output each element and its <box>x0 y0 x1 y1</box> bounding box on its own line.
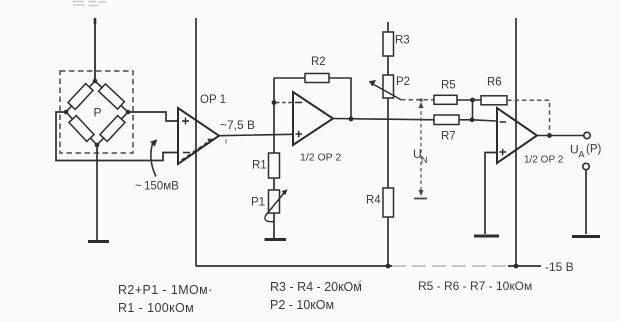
svg-text:R5: R5 <box>441 80 456 92</box>
resistor R4 <box>383 188 394 217</box>
OP1 plus input mark <box>182 118 189 125</box>
svg-text:R3 - R4 - 20кОм: R3 - R4 - 20кОм <box>270 280 362 294</box>
wire: summing tie vertical <box>472 100 474 120</box>
wire: R3 to P2 <box>387 56 389 75</box>
svg-text:~ 150мВ: ~ 150мВ <box>135 181 179 193</box>
wire: dashed lead into OP2 inverting input <box>276 102 292 104</box>
op-amp U3 (1/2 OP 2) <box>497 108 537 163</box>
UN voltage dashed arrow <box>420 105 422 192</box>
wire: OP3 output <box>537 135 584 137</box>
wire: OP3 non-inverting input to ground <box>485 153 497 235</box>
wire: bridge excitation supply (top left vertical) <box>94 18 96 80</box>
wire: negative supply rail <box>196 265 392 267</box>
offset adjust curved arrow <box>151 142 156 177</box>
svg-text:R5 - R6 - R7 - 10кОм: R5 - R6 - R7 - 10кОм <box>418 279 532 293</box>
P1 wiper tie hook <box>265 214 274 222</box>
node: rail R4 junction <box>386 264 391 269</box>
wire: top feed to R3 <box>387 22 389 32</box>
bridge resistor arm bottom-left <box>69 116 94 142</box>
svg-text:R6: R6 <box>487 77 502 89</box>
svg-text:R1 - 100кОм: R1 - 100кОм <box>118 301 194 315</box>
OP1 offset trim dashed arrow <box>182 141 210 160</box>
node: bridge right <box>126 110 131 115</box>
P2 wiper arrow <box>371 83 401 100</box>
wire: bridge right node to OP1 non-inverting input <box>128 112 178 121</box>
svg-text:P2 - 10кОм: P2 - 10кОм <box>270 298 334 312</box>
resistor R2 <box>305 74 329 83</box>
node: summing junction lower <box>470 117 475 122</box>
wire: R7 to summing node <box>459 119 472 121</box>
wire: bridge left node to OP1 inverting input <box>56 112 178 161</box>
wire: P1 to ground <box>273 213 275 238</box>
node: output/feedback junction <box>547 133 552 138</box>
wire: R2 to OP2 output <box>329 78 351 119</box>
node: P2 wiper / UN reference <box>419 98 423 102</box>
svg-text:R7: R7 <box>441 131 456 143</box>
resistor R3 <box>383 32 394 56</box>
OP3 minus input mark <box>500 121 507 123</box>
OP2 plus input mark <box>296 131 303 138</box>
resistor R6 <box>481 96 507 105</box>
ground (bridge) <box>88 240 109 243</box>
wire: OP1 output to OP2 non-inverting input <box>219 134 293 135</box>
svg-text:P: P <box>94 106 102 120</box>
wire: P2 wiper bend to R5 (dashed) <box>401 99 434 101</box>
svg-text:-15 В: -15 В <box>545 260 574 274</box>
op-amp U2 (1/2 OP 2) <box>293 92 333 145</box>
terminal: output UA <box>584 132 590 138</box>
svg-text:R4: R4 <box>366 195 381 207</box>
wire: OP2 output to R7 <box>333 119 434 120</box>
node: summing junction upper <box>470 98 475 103</box>
svg-text:OP 1: OP 1 <box>200 94 226 106</box>
svg-text:R2: R2 <box>311 56 326 68</box>
svg-text:1/2 OP 2: 1/2 OP 2 <box>524 155 564 166</box>
svg-text:(Р): (Р) <box>586 144 602 156</box>
svg-text:P2: P2 <box>396 76 410 88</box>
bridge resistor arm top-right <box>99 84 125 109</box>
wire: inverting node vertical (feedback to R1) <box>273 78 275 153</box>
ground (output) <box>572 235 600 238</box>
bridge resistor arm top-left <box>68 84 93 110</box>
bridge sensor P dashed enclosure <box>60 71 133 153</box>
svg-text:~7,5 В: ~7,5 В <box>220 118 255 132</box>
wire: R6 feedback to OP3 output (dashed) <box>507 100 550 133</box>
terminal: output return <box>583 163 589 169</box>
node: OP2 inverting summing node <box>272 100 277 105</box>
resistor R7 <box>434 115 459 125</box>
op-amp OP1 <box>178 108 219 164</box>
bridge resistor arm bottom-right <box>100 116 125 142</box>
svg-text:U: U <box>570 143 579 157</box>
ground (P1) <box>265 238 287 241</box>
wire: bridge bottom to ground <box>96 145 98 240</box>
node: OP2 output junction <box>349 117 354 122</box>
svg-text:R3: R3 <box>395 35 410 47</box>
OP2 minus input mark <box>295 102 302 104</box>
node: bridge left <box>64 110 69 115</box>
wire: P2 bottom down to R4 <box>387 98 389 188</box>
potentiometer P2 <box>383 75 394 98</box>
wire: supply vertical through OP3 <box>515 18 517 266</box>
wire: R4 to negative rail <box>387 217 389 266</box>
node: bridge bottom <box>95 143 100 148</box>
faint page-edge text fragment top <box>72 2 106 6</box>
OP3 plus input mark <box>500 149 507 156</box>
resistor R1 <box>269 153 280 178</box>
wire: R1 to P1 <box>273 178 275 190</box>
wire: negative supply vertical through OP1 <box>195 18 197 266</box>
ground (OP3 +) <box>474 235 499 238</box>
wire: summing node to OP3 inverting input <box>472 120 497 121</box>
resistor R5 <box>434 95 457 104</box>
wire: R5 to summing node <box>457 99 481 101</box>
potentiometer P1 <box>269 190 280 213</box>
OP1 minus input mark <box>183 152 190 154</box>
wire: output return to ground <box>585 170 587 234</box>
svg-text:R2+P1 - 1МОм·: R2+P1 - 1МОм· <box>118 283 213 297</box>
P1 wiper arrow <box>266 193 284 215</box>
svg-text:N: N <box>421 155 428 165</box>
wire: feedback top run to R2 <box>274 77 305 79</box>
svg-text:1/2 OP 2: 1/2 OP 2 <box>300 152 341 164</box>
svg-text:P1: P1 <box>251 197 265 209</box>
svg-text:R1: R1 <box>252 160 267 172</box>
svg-text:A: A <box>579 150 585 160</box>
bridge diamond wires <box>66 81 128 145</box>
node: rail OP3 supply junction <box>514 264 519 269</box>
node: bridge top <box>93 79 98 84</box>
